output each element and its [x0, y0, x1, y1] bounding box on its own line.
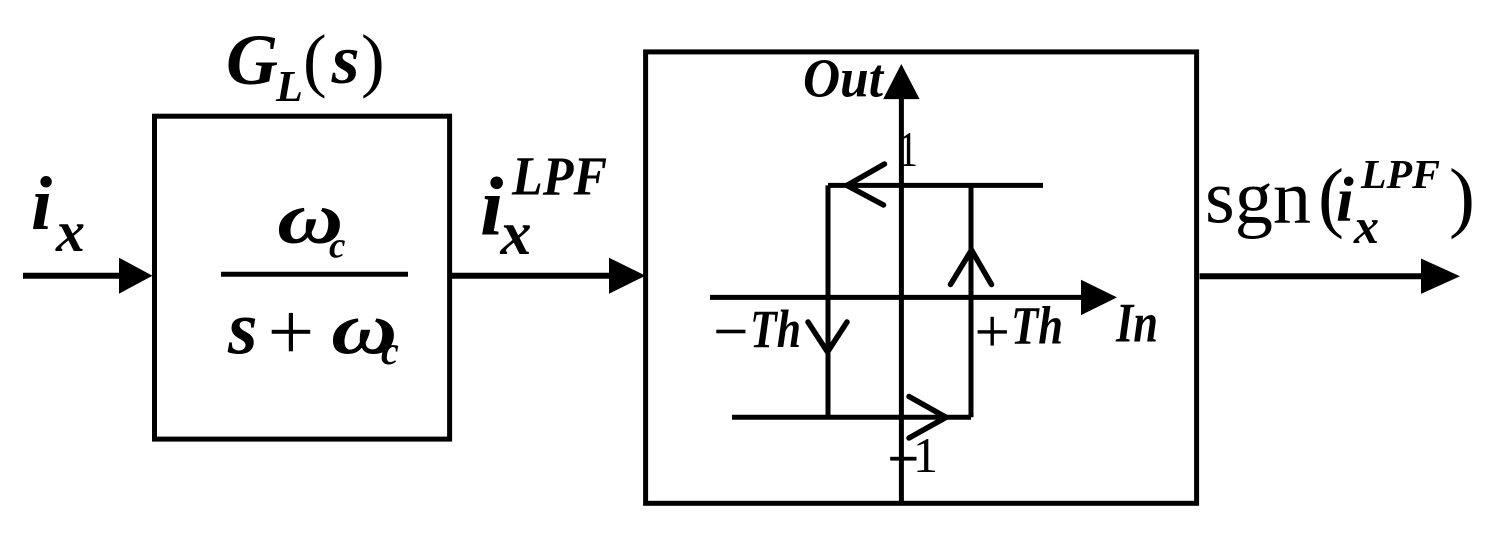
svg-text:LPF: LPF	[511, 146, 607, 207]
label -Th (lower threshold)	[716, 299, 801, 359]
middle arrowhead	[609, 258, 646, 294]
svg-text:x: x	[500, 200, 532, 268]
block title label G_L(s)	[226, 20, 385, 111]
svg-text:Th: Th	[750, 299, 801, 359]
up-pointing chevron arrow on right vertical	[951, 250, 992, 285]
right-pointing chevron arrow on bottom segment	[909, 397, 946, 439]
svg-text:x: x	[55, 199, 85, 264]
svg-text:Th: Th	[1011, 296, 1063, 356]
svg-text:1: 1	[898, 122, 918, 177]
In axis label	[1115, 293, 1158, 355]
svg-text:sgn: sgn	[1205, 156, 1311, 240]
svg-text:1: 1	[913, 427, 938, 483]
svg-text:s: s	[331, 22, 360, 99]
left-pointing chevron arrow on top segment	[847, 164, 885, 205]
Out axis arrowhead	[883, 64, 919, 99]
Out axis (vertical)	[899, 97, 904, 503]
hysteresis top segment (out=+1)	[828, 183, 1043, 188]
transfer function numerator omega_c	[277, 178, 345, 266]
transfer function denominator s + omega_c	[227, 287, 399, 374]
hysteresis bottom segment (out=-1)	[732, 415, 971, 420]
svg-text:G: G	[226, 20, 278, 100]
svg-text:Out: Out	[803, 48, 885, 109]
input signal label i_x	[31, 162, 85, 264]
svg-text:LPF: LPF	[1360, 151, 1440, 197]
svg-text:(: (	[303, 22, 327, 100]
svg-text:): )	[361, 22, 385, 100]
svg-text:In: In	[1115, 293, 1158, 355]
svg-text:c: c	[329, 226, 345, 267]
Out axis label	[803, 48, 885, 109]
svg-text:i: i	[31, 162, 52, 246]
svg-text:L: L	[275, 62, 303, 111]
block box G_L(s) (low-pass filter)	[155, 116, 450, 439]
svg-text:i: i	[1336, 163, 1354, 234]
wire label i_x^LPF	[480, 146, 607, 268]
hysteresis right vertical segment (at +Th)	[969, 185, 974, 417]
svg-text:): )	[1449, 153, 1475, 240]
middle wire	[452, 273, 612, 279]
label -1 (output low level)	[890, 427, 938, 483]
hysteresis left vertical segment (at -Th)	[826, 185, 831, 417]
input wire	[23, 273, 122, 279]
hysteresis block box	[646, 52, 1197, 503]
svg-text:c: c	[381, 328, 399, 373]
label 1 (output high level)	[898, 122, 918, 177]
In axis arrowhead	[1081, 280, 1117, 315]
fraction bar	[221, 272, 408, 277]
output wire	[1200, 273, 1424, 279]
svg-text:s: s	[227, 287, 258, 371]
In axis (horizontal)	[710, 295, 1084, 300]
input arrowhead	[119, 258, 153, 294]
output label sgn(i_x^LPF)	[1205, 151, 1475, 254]
output arrowhead	[1421, 259, 1460, 294]
down-pointing chevron arrow on left vertical	[808, 322, 847, 352]
label +Th (upper threshold)	[978, 296, 1063, 356]
svg-text:x: x	[1353, 198, 1379, 254]
